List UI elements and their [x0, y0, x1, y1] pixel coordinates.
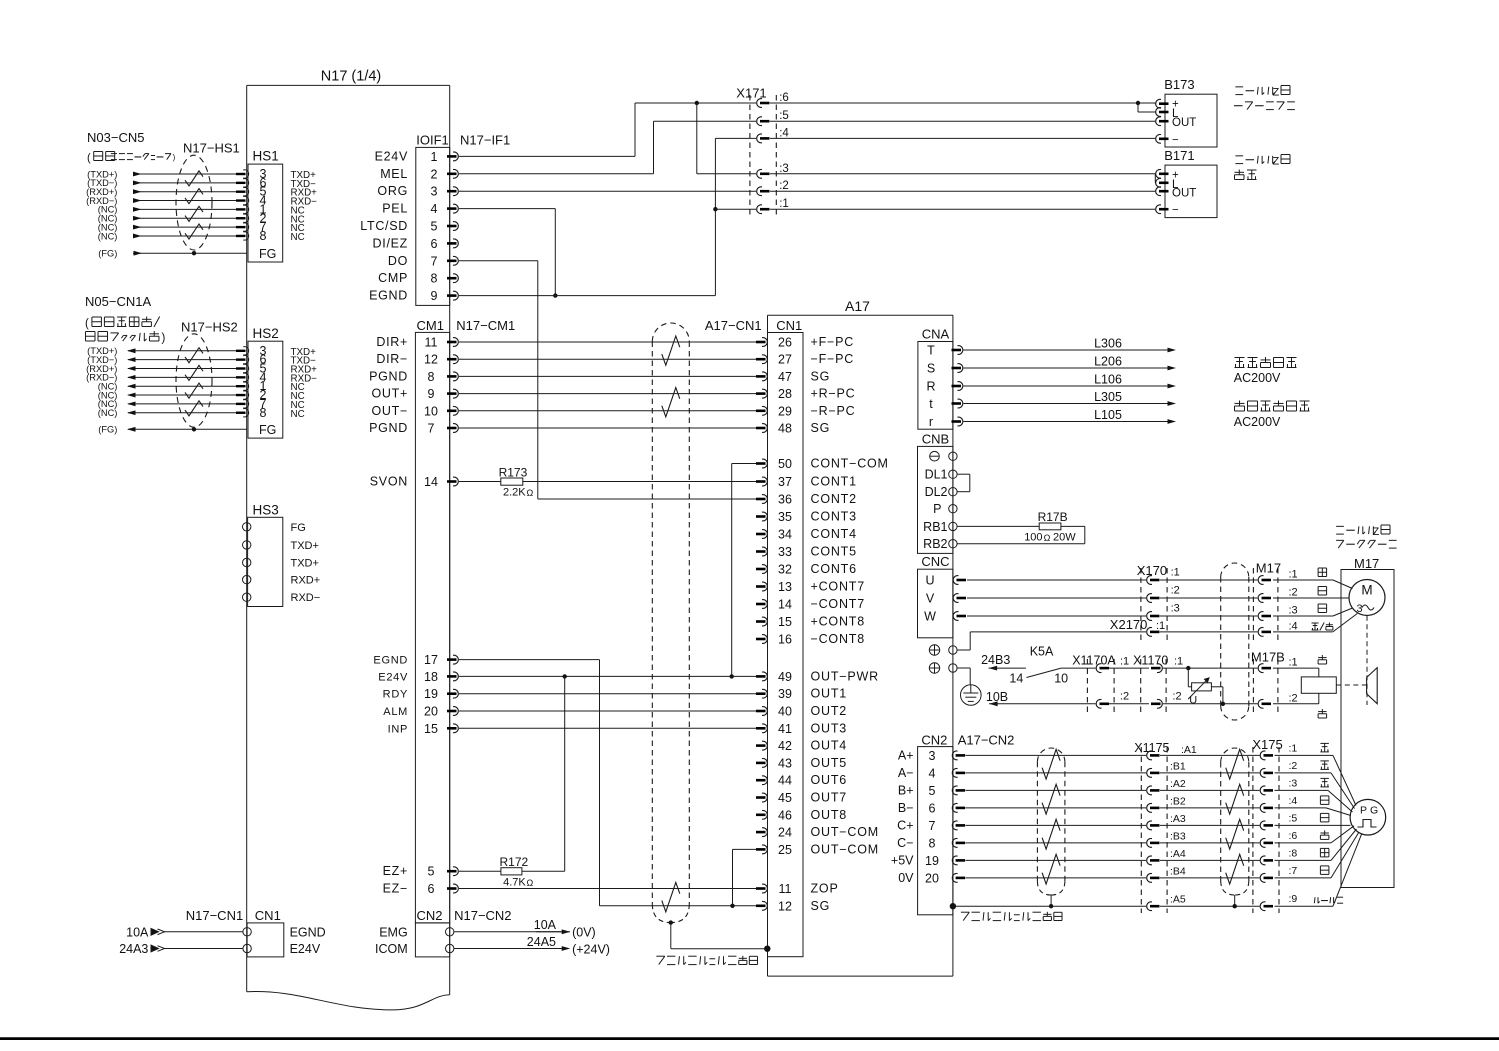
svg-text:N05−CN1A: N05−CN1A [85, 294, 151, 309]
motor cable shield capsule [1220, 577, 1222, 706]
svg-text:39: 39 [778, 687, 792, 701]
svg-text:S: S [927, 362, 935, 376]
svg-text:(: ( [85, 318, 89, 330]
svg-text:24A5: 24A5 [527, 935, 556, 949]
svg-text:ORG: ORG [377, 184, 408, 198]
svg-text:(NC): (NC) [98, 408, 118, 418]
svg-text:14: 14 [778, 598, 792, 612]
wires X175 to PG [1275, 754, 1334, 756]
svg-text:r: r [929, 415, 933, 429]
svg-text:+R−PC: +R−PC [811, 387, 856, 401]
wire branch to X171:1 [715, 208, 756, 210]
N17-CN2 pins EMG ICOM [446, 928, 454, 936]
junction dot SG12 tie [730, 904, 734, 908]
svg-text:IOIF1: IOIF1 [416, 133, 449, 148]
svg-text:CN2: CN2 [416, 908, 442, 923]
svg-text::1: :1 [1120, 656, 1129, 668]
wire 25 OUT-COM tie to SG12 [733, 848, 757, 850]
HS2 wires from N05-CN1A [128, 350, 236, 352]
svg-text:OUT: OUT [1172, 117, 1196, 129]
connector X171 [749, 95, 751, 216]
junction dot capsule1 shield [1049, 904, 1053, 908]
svg-text:Ω: Ω [527, 878, 534, 888]
svg-text:40: 40 [778, 705, 792, 719]
svg-text:): ) [161, 333, 165, 345]
svg-text:7: 7 [929, 819, 936, 833]
connector A17-CN2 box [918, 747, 953, 915]
DL1-DL2 jumper [957, 473, 970, 475]
connector HS3 box [248, 517, 283, 606]
HS1 twisted pair marks [185, 171, 203, 186]
svg-text:+5V: +5V [891, 853, 914, 867]
svg-text:Z: Z [1373, 526, 1380, 538]
svg-text:−R−PC: −R−PC [811, 404, 856, 418]
svg-text:DL1: DL1 [925, 468, 948, 482]
svg-text:OUT7: OUT7 [811, 791, 848, 805]
svg-text:M17: M17 [1354, 556, 1379, 571]
label main circuit power AC200V [1235, 357, 1245, 359]
svg-text:RXD+: RXD+ [291, 575, 321, 587]
svg-text:N17−IF1: N17−IF1 [460, 133, 510, 148]
wire X171:2 to B171 OUT [770, 190, 1155, 192]
wire 10A to EGND [164, 931, 243, 933]
svg-text:0V: 0V [898, 871, 914, 885]
N17 module outline (1/4) [247, 84, 450, 86]
svg-text:E24V: E24V [378, 671, 408, 683]
svg-text:RDY: RDY [383, 689, 408, 701]
svg-text:24: 24 [778, 826, 792, 840]
svg-text::1: :1 [779, 198, 789, 210]
wire branch to X171:3 [696, 103, 698, 174]
svg-text:OUT−COM: OUT−COM [811, 825, 879, 839]
wires X1175 to X175 [1160, 754, 1260, 756]
svg-text:33: 33 [778, 545, 792, 559]
reference arrow 10B row [989, 701, 998, 706]
svg-text:B−: B− [898, 801, 914, 815]
svg-text:100: 100 [1024, 532, 1042, 544]
svg-text:CONT1: CONT1 [811, 475, 857, 489]
wire ALM to OUT2 40 [459, 710, 756, 712]
svg-text:AC200V: AC200V [1234, 371, 1281, 385]
svg-text:Ω: Ω [527, 488, 534, 498]
encoder PG circle [1350, 799, 1386, 835]
svg-text:+CONT7: +CONT7 [811, 580, 865, 594]
svg-text::B2: :B2 [1170, 795, 1186, 807]
svg-text::A1: :A1 [1181, 744, 1197, 756]
A17 servo amp outline [768, 314, 953, 316]
svg-text:8: 8 [260, 406, 267, 420]
svg-text:3: 3 [431, 185, 438, 199]
svg-text:4: 4 [929, 766, 936, 780]
svg-text:13: 13 [778, 580, 792, 594]
junction dot thermistor top [1186, 666, 1190, 670]
svg-text:P: P [1360, 805, 1367, 817]
svg-text:9: 9 [431, 289, 438, 303]
svg-text:U: U [925, 574, 934, 588]
svg-text:15: 15 [778, 615, 792, 629]
svg-text:TXD+: TXD+ [291, 558, 319, 570]
svg-text:FG: FG [291, 522, 306, 534]
svg-text:1: 1 [431, 150, 438, 164]
svg-text:EMG: EMG [379, 925, 407, 939]
svg-text:N17−CM1: N17−CM1 [456, 318, 515, 333]
svg-text:24A3: 24A3 [119, 942, 148, 956]
svg-text:V: V [926, 592, 935, 606]
svg-text:A−: A− [898, 766, 914, 780]
svg-text::4: :4 [1289, 795, 1298, 807]
brake relay coil box [1273, 667, 1319, 669]
svg-text:8: 8 [929, 836, 936, 850]
svg-text:7: 7 [431, 254, 438, 268]
svg-text:OUT: OUT [1172, 188, 1196, 200]
svg-text::4: :4 [779, 127, 789, 139]
svg-text::2: :2 [1120, 691, 1129, 703]
svg-text:EZ−: EZ− [383, 882, 408, 896]
svg-text:CMP: CMP [378, 271, 408, 285]
HS1 shield ellipse N17-HS1 [176, 155, 212, 250]
svg-text:29: 29 [778, 404, 792, 418]
svg-text:CNA: CNA [922, 327, 950, 342]
svg-text:C+: C+ [897, 818, 913, 832]
svg-text:3: 3 [1357, 603, 1363, 615]
svg-text:43: 43 [778, 756, 792, 770]
svg-text:OUT+: OUT+ [372, 387, 409, 401]
connector HS2 box [248, 341, 283, 438]
wire X171:1 to B171 - [770, 208, 1155, 210]
svg-text:DIR−: DIR− [376, 352, 408, 366]
junction dot capsule2 shield [1233, 904, 1237, 908]
svg-text:NC: NC [291, 232, 305, 243]
wire color labels red white black green-yellow [1318, 567, 1327, 569]
svg-text:2.2K: 2.2K [503, 487, 526, 499]
wire PEL pin4 to EGND wire [459, 208, 555, 210]
svg-text:5: 5 [929, 784, 936, 798]
svg-text:OUT2: OUT2 [811, 704, 848, 718]
svg-text:36: 36 [778, 493, 792, 507]
label control circuit power AC200V [1239, 401, 1241, 407]
connector A17-CN1 box [768, 333, 804, 957]
label table Z axis overrun [1235, 86, 1243, 88]
svg-text:20: 20 [925, 871, 939, 885]
svg-text:X171: X171 [736, 86, 766, 101]
connector X1175 [1140, 747, 1142, 913]
wire RDY to OUT1 39 [459, 693, 756, 695]
svg-text:RXD−: RXD− [291, 592, 321, 604]
wire INP to OUT3 41 [459, 727, 756, 729]
svg-text:C−: C− [897, 836, 913, 850]
svg-text:L306: L306 [1094, 337, 1122, 351]
HS3 pin circles and labels [243, 523, 251, 531]
svg-text:6: 6 [929, 801, 936, 815]
encoder cable capsule 1 [1036, 762, 1038, 882]
connector IOIF1 box [416, 147, 450, 305]
svg-text:4.7K: 4.7K [503, 877, 526, 889]
svg-text:PGND: PGND [369, 421, 408, 435]
svg-text:Ω: Ω [1044, 533, 1051, 543]
svg-text::A5: :A5 [1170, 894, 1186, 906]
svg-text:OUT5: OUT5 [811, 756, 848, 770]
svg-text:E24V: E24V [290, 942, 321, 956]
svg-text:12: 12 [424, 353, 438, 367]
HS2 FG wire [128, 428, 247, 430]
resistor R172 4.7K [459, 870, 501, 872]
svg-text::B3: :B3 [1170, 830, 1186, 842]
wires CN2 to X1175 [966, 754, 1147, 756]
wire 24A3 to E24V [164, 948, 243, 950]
svg-text:FG: FG [259, 247, 276, 261]
capsule2 twists [1226, 749, 1244, 779]
svg-text:+CONT8: +CONT8 [811, 615, 865, 629]
wire EZ- to ZOP 11 [459, 888, 756, 890]
dashed link to brake [1336, 684, 1366, 686]
svg-text::2: :2 [1289, 760, 1298, 772]
svg-text:(FG): (FG) [98, 249, 117, 259]
CNB pins [949, 452, 957, 460]
svg-text:L206: L206 [1094, 355, 1122, 369]
svg-text:8: 8 [260, 229, 267, 243]
svg-text:RB2: RB2 [923, 537, 947, 551]
svg-text:45: 45 [778, 791, 792, 805]
svg-text:ICOM: ICOM [375, 942, 408, 956]
svg-text::1: :1 [1171, 567, 1180, 579]
svg-text:10A: 10A [534, 918, 557, 932]
sheet bottom border line [0, 1037, 1499, 1040]
svg-text:CONT2: CONT2 [811, 492, 857, 506]
svg-text:24B3: 24B3 [981, 653, 1010, 667]
svg-text:(FG): (FG) [98, 425, 117, 435]
wire CONT-COM 50 tie to 49 [732, 463, 757, 465]
svg-text:N17−CN1: N17−CN1 [186, 908, 243, 923]
svg-text:19: 19 [424, 687, 438, 701]
B171 + to L bracket [1154, 174, 1156, 183]
wire PGND to 48 [459, 427, 756, 429]
junction dot E24V-R172 [563, 674, 567, 678]
capsule1 twists [1042, 749, 1060, 779]
svg-text:7: 7 [428, 422, 435, 436]
svg-text::7: :7 [1289, 865, 1298, 877]
svg-text:OUT8: OUT8 [811, 808, 848, 822]
svg-text:R: R [926, 380, 935, 394]
svg-text::2: :2 [1289, 693, 1298, 705]
svg-text::3: :3 [1171, 603, 1180, 615]
svg-text:28: 28 [778, 387, 792, 401]
svg-text:32: 32 [778, 563, 792, 577]
svg-text::2: :2 [779, 180, 789, 192]
resistor R173 2.2K [459, 481, 501, 483]
svg-text::2: :2 [1171, 585, 1180, 597]
svg-text:CN1: CN1 [776, 318, 802, 333]
svg-text:PGND: PGND [369, 369, 408, 383]
svg-text:EZ+: EZ+ [383, 864, 408, 878]
wire MEL pin2 to X171:5 [459, 173, 654, 175]
svg-text:G: G [1370, 805, 1378, 817]
svg-text:26: 26 [778, 336, 792, 350]
servo motor M17 box [1341, 570, 1394, 888]
HS1 FG wire [133, 252, 247, 254]
encoder cable capsule 2 [1220, 762, 1222, 881]
svg-text:EGND: EGND [369, 289, 408, 303]
svg-text:OUT−COM: OUT−COM [811, 842, 879, 856]
svg-text:CONT3: CONT3 [811, 510, 857, 524]
svg-text:CONT4: CONT4 [811, 527, 857, 541]
svg-text::8: :8 [1289, 847, 1298, 859]
sensor B173 box [1165, 94, 1217, 147]
reference arrow 24B3 [989, 666, 998, 671]
svg-text:PEL: PEL [382, 202, 408, 216]
connector X170 [1140, 568, 1142, 640]
connector N17-CN2 box [415, 923, 449, 957]
svg-text:CN2: CN2 [921, 732, 947, 747]
junction dot 50-49 tie [730, 674, 734, 678]
svg-text:41: 41 [778, 722, 792, 736]
svg-text:CN1: CN1 [255, 908, 281, 923]
svg-text:N17−HS2: N17−HS2 [181, 320, 238, 335]
svg-text:9: 9 [428, 387, 435, 401]
svg-text::1: :1 [1289, 569, 1298, 581]
svg-text:4: 4 [431, 202, 438, 216]
svg-text::3: :3 [779, 163, 789, 175]
wire EGND pin9 to X171:4 [459, 295, 715, 297]
svg-text:R172: R172 [500, 855, 529, 869]
connector CNC box [918, 569, 953, 638]
svg-text:25: 25 [778, 843, 792, 857]
svg-text:17: 17 [424, 653, 438, 667]
capsule twists [662, 336, 680, 365]
svg-text:10: 10 [1054, 672, 1068, 686]
svg-text:Z: Z [1273, 156, 1280, 168]
svg-text:SG: SG [811, 369, 831, 383]
svg-text:): ) [173, 153, 176, 162]
svg-text::1: :1 [1156, 620, 1165, 632]
svg-text:Z: Z [1273, 87, 1280, 99]
wire X171:3 to B171 + [770, 173, 1155, 175]
svg-text:L305: L305 [1094, 390, 1122, 404]
svg-text:OUT3: OUT3 [811, 721, 848, 735]
PE pin 2 to earth 10B [929, 663, 939, 673]
svg-text:16: 16 [778, 633, 792, 647]
wire EMG to 10A (0V) [454, 931, 562, 933]
svg-text:+F−PC: +F−PC [811, 335, 855, 349]
wire DIR- to 27 [459, 358, 756, 360]
svg-text::3: :3 [1289, 605, 1298, 617]
svg-text:A17: A17 [845, 298, 870, 314]
svg-text:OUT6: OUT6 [811, 773, 848, 787]
svg-text:L106: L106 [1094, 373, 1122, 387]
svg-text:A+: A+ [898, 748, 914, 762]
wire OUT- to 29 [459, 410, 756, 412]
svg-text:DI/EZ: DI/EZ [373, 236, 408, 250]
svg-text:M17: M17 [1256, 561, 1281, 576]
svg-text:37: 37 [778, 475, 792, 489]
svg-text::3: :3 [1289, 777, 1298, 789]
svg-text:N17−CN2: N17−CN2 [454, 908, 511, 923]
motor circle M 3~ [1349, 580, 1385, 616]
connector CNA box [918, 342, 953, 430]
svg-text::B1: :B1 [1170, 760, 1186, 772]
svg-text::A3: :A3 [1170, 813, 1186, 825]
svg-text::5: :5 [1289, 812, 1298, 824]
svg-text:3: 3 [929, 749, 936, 763]
wire DO pin7 to A17 CN1 pin36 CONT2 [459, 260, 538, 262]
svg-text:(+24V): (+24V) [572, 942, 610, 956]
svg-text:34: 34 [778, 528, 792, 542]
svg-text:SG: SG [811, 421, 831, 435]
svg-text:47: 47 [778, 370, 792, 384]
svg-text:(NC): (NC) [98, 231, 118, 241]
svg-text::1: :1 [1289, 657, 1298, 669]
svg-text:50: 50 [778, 457, 792, 471]
wire color labels yellow [1321, 655, 1323, 660]
svg-text:DO: DO [388, 254, 408, 268]
wire DIR+ to 26 [459, 341, 756, 343]
earth ground symbol 10B [961, 685, 982, 706]
wire X171:5 to B173 OUT [770, 120, 1155, 122]
svg-text:42: 42 [778, 739, 792, 753]
junction dot EGND to X171:1 [713, 207, 717, 211]
connector CM1 box [415, 332, 449, 923]
svg-text::A4: :A4 [1170, 848, 1186, 860]
connector HS1 box [248, 164, 283, 262]
svg-text:DIR+: DIR+ [376, 335, 408, 349]
wire X171:4 to B173 - [770, 137, 1155, 139]
svg-text:−CONT7: −CONT7 [811, 597, 865, 611]
svg-text:SVON: SVON [370, 475, 408, 489]
X175 wire colors [1320, 742, 1329, 744]
svg-text:−F−PC: −F−PC [811, 352, 855, 366]
svg-text:OUT−PWR: OUT−PWR [811, 669, 879, 683]
wire EGND17 to SG12 [459, 659, 600, 661]
svg-text::2: :2 [1172, 691, 1181, 703]
svg-text:X1170A: X1170A [1072, 654, 1116, 668]
connector M17 [1252, 568, 1254, 640]
svg-text:B171: B171 [1164, 148, 1194, 163]
svg-text:M: M [1361, 583, 1372, 598]
svg-text:CONT6: CONT6 [811, 562, 857, 576]
svg-text:U: U [1189, 695, 1197, 707]
svg-text:12: 12 [778, 899, 792, 913]
svg-text:11: 11 [779, 882, 792, 896]
svg-text:MEL: MEL [380, 167, 408, 181]
svg-text:N03−CN5: N03−CN5 [87, 130, 144, 145]
svg-text:44: 44 [778, 774, 792, 788]
B171 pins [1156, 169, 1161, 178]
svg-text:OUT4: OUT4 [811, 739, 848, 753]
svg-text:−: − [1172, 205, 1179, 217]
svg-text:AC200V: AC200V [1234, 415, 1281, 429]
svg-text::9: :9 [1289, 893, 1298, 905]
svg-text::1: :1 [1174, 656, 1183, 668]
svg-text:RB1: RB1 [923, 520, 947, 534]
svg-text:TXD+: TXD+ [291, 540, 319, 552]
label table Z axis servo motor [1336, 525, 1344, 527]
svg-text:8: 8 [428, 370, 435, 384]
svg-text::6: :6 [779, 92, 789, 104]
shield drain to connector shell [669, 920, 673, 924]
connector N17-CN1 box [247, 923, 284, 957]
HS2 shield ellipse N17-HS2 [176, 334, 212, 427]
connector X1170A [1086, 659, 1088, 712]
svg-text:EGND: EGND [373, 655, 408, 667]
thermistor U motor overheat [1187, 668, 1189, 687]
svg-text:X2170: X2170 [1110, 617, 1148, 632]
svg-text:X175: X175 [1252, 737, 1282, 752]
svg-text:A17−CN2: A17−CN2 [958, 732, 1015, 747]
svg-text:HS3: HS3 [253, 503, 279, 518]
junction dot thermistor bottom [1221, 702, 1225, 706]
svg-text:SG: SG [811, 899, 831, 913]
svg-text:ZOP: ZOP [811, 882, 839, 896]
svg-text:−: − [1172, 135, 1179, 147]
